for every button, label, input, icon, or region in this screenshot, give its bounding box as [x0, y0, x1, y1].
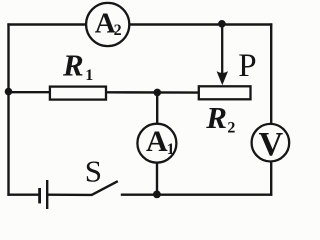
svg-text:V: V [259, 126, 284, 163]
ammeter A1 [137, 124, 176, 163]
wire left vertical [7, 23, 9, 195]
resistor R2 (rheostat track) [199, 86, 251, 99]
node dot left [5, 88, 13, 96]
label R1 [62, 47, 93, 84]
wire top-right segment [130, 23, 272, 25]
wire top-left segment [7, 23, 86, 25]
node dot top (wiper tap) [218, 20, 226, 28]
svg-text:1: 1 [167, 141, 175, 158]
battery cell short plate [38, 188, 41, 203]
wire right vertical lower [270, 162, 272, 195]
wire bottom segment left of battery [7, 193, 39, 195]
label R2 [205, 100, 235, 136]
wire bottom segment switch to right corner [121, 193, 272, 195]
wiper arrow P head [217, 71, 228, 85]
voltmeter V [252, 124, 290, 163]
svg-text:R: R [62, 47, 84, 82]
node dot bottom (A1 return) [153, 191, 161, 199]
svg-text:P: P [238, 48, 256, 84]
wire bottom segment battery to switch [47, 193, 91, 196]
battery cell long plate [46, 180, 48, 209]
wiper arrow P shaft [221, 24, 223, 75]
resistor R1 [50, 87, 106, 100]
svg-text:S: S [85, 154, 102, 189]
svg-text:1: 1 [85, 67, 93, 84]
svg-text:2: 2 [114, 22, 122, 39]
svg-text:A: A [146, 125, 168, 158]
node dot center (A1 tap) [154, 89, 162, 97]
ammeter A2 [86, 3, 129, 46]
wire right vertical upper [270, 23, 272, 123]
svg-text:R: R [205, 100, 227, 135]
wire R1 to R2 through node [107, 91, 199, 94]
wire middle left node to R1 [9, 91, 51, 93]
wire A1 branch lower [156, 163, 158, 195]
wire A1 branch upper [156, 92, 158, 123]
switch S lever [91, 181, 118, 195]
svg-text:2: 2 [227, 119, 235, 136]
